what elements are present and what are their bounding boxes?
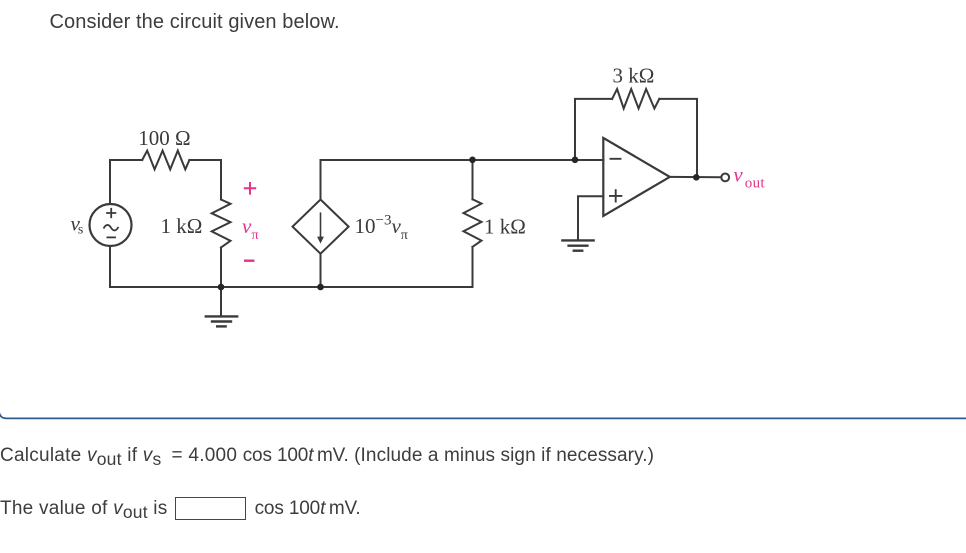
svg-text:1 kΩ: 1 kΩ <box>161 214 203 238</box>
svg-text:π: π <box>252 228 259 243</box>
svg-text:vs: vs <box>71 212 84 238</box>
svg-text:10−3vπ: 10−3vπ <box>355 213 408 244</box>
svg-text:1 kΩ: 1 kΩ <box>484 215 526 239</box>
svg-text:out: out <box>745 176 766 192</box>
svg-text:v: v <box>733 163 743 187</box>
svg-text:3 kΩ: 3 kΩ <box>613 63 655 87</box>
svg-text:v: v <box>242 214 252 238</box>
svg-text:100 Ω: 100 Ω <box>138 126 190 150</box>
